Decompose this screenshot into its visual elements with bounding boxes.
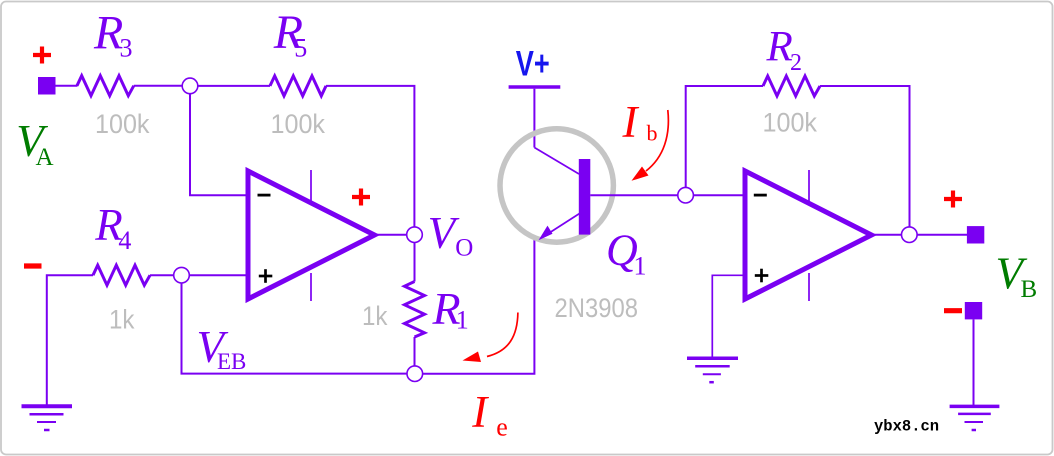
V+ supply bar (509, 85, 561, 89)
minus polarity mark VB (944, 308, 962, 313)
svg-text:I: I (471, 387, 489, 437)
svg-text:4: 4 (118, 226, 131, 255)
wire U2 output to node E (872, 234, 902, 236)
node D junction circle (678, 187, 694, 203)
svg-text:1: 1 (456, 305, 469, 334)
transistor Q1 collector lead (534, 148, 579, 175)
svg-text:b: b (647, 121, 658, 146)
svg-text:R: R (766, 24, 793, 71)
wire noninverting input U2 to ground G2 (712, 275, 745, 357)
plus polarity mark at U1 output (352, 189, 370, 206)
resistor R1 (405, 282, 425, 338)
node VO junction circle (407, 227, 423, 243)
svg-text:1k: 1k (109, 305, 135, 335)
wire node D up and over through R2 (686, 86, 763, 187)
wire corner to R4 (47, 275, 93, 404)
svg-text:1: 1 (634, 251, 647, 280)
wire R1 to node C (414, 337, 416, 366)
wire R4 to node B (150, 274, 174, 276)
resistor R3 (77, 76, 134, 96)
terminal square VB- (965, 302, 982, 319)
op-amp U1 minus input mark (258, 194, 271, 197)
node E junction circle (902, 227, 918, 243)
terminal square VB+ (967, 226, 984, 243)
ground G1 (22, 406, 73, 430)
svg-text:A: A (36, 144, 54, 171)
svg-text:I: I (622, 97, 640, 147)
svg-text:3: 3 (120, 33, 133, 62)
svg-text:ybx8.cn: ybx8.cn (874, 418, 939, 436)
wire VB- to ground G3 (973, 319, 975, 405)
current Ib arrow (646, 110, 668, 171)
resistor R2 (763, 76, 820, 96)
wire node E to terminal square VB+ (917, 234, 967, 236)
wire R2 down to output node E (820, 86, 910, 227)
op-amp U2 power pins (808, 170, 810, 203)
svg-text:1k: 1k (362, 301, 388, 331)
ground G2 (687, 358, 738, 382)
current Ie arrow (487, 313, 518, 357)
wire node A down to inverting input U1 (190, 94, 248, 195)
svg-text:e: e (496, 413, 508, 442)
op-amp U1 power pins (310, 170, 312, 203)
minus polarity mark R4 input (24, 263, 42, 268)
svg-text:100k: 100k (763, 107, 818, 137)
svg-text:V+: V+ (516, 44, 550, 83)
wire node B to noninverting input U1 (189, 274, 248, 276)
svg-text:EB: EB (217, 349, 246, 374)
resistor R5 (270, 76, 326, 96)
svg-text:100k: 100k (95, 109, 150, 139)
transistor Q1 emitter lead with arrow (546, 214, 580, 236)
wire node D to inverting input U2 (693, 194, 745, 196)
node C junction circle (407, 366, 423, 382)
svg-text:5: 5 (294, 33, 307, 62)
plus polarity mark VB (944, 191, 962, 208)
svg-text:O: O (455, 234, 473, 261)
wire node C to emitter riser (423, 240, 535, 374)
op-amp U2 (745, 171, 872, 299)
resistor R4 (93, 265, 150, 285)
wire VA to R3 (55, 85, 78, 87)
svg-text:100k: 100k (271, 109, 326, 139)
op-amp U2 minus input mark (754, 194, 767, 197)
svg-text:2N3908: 2N3908 (555, 293, 639, 323)
terminal square VA (38, 77, 56, 95)
wire base to node D (590, 194, 678, 196)
wire node A to R5 (198, 85, 270, 87)
op-amp U1 (248, 171, 375, 299)
svg-text:B: B (1021, 276, 1038, 303)
op-amp U2 plus input mark (755, 269, 769, 283)
transistor Q1 body circle (500, 129, 613, 242)
op-amp U1 plus input mark (259, 269, 273, 283)
transistor Q1 base bar (579, 159, 591, 235)
wire node B down to VEB rail (182, 283, 408, 374)
node A junction circle (182, 78, 198, 94)
node B junction circle (174, 267, 190, 283)
wire R3 to node A (134, 85, 182, 87)
wire V+ to collector (533, 89, 535, 148)
wire node VO down to R1 (414, 242, 416, 281)
plus polarity mark VA (33, 47, 51, 64)
wire U1 output to node VO (375, 234, 407, 236)
wire R5 to feedback corner down to output node (326, 86, 414, 227)
ground G3 (950, 406, 1000, 430)
svg-text:2: 2 (790, 50, 802, 76)
